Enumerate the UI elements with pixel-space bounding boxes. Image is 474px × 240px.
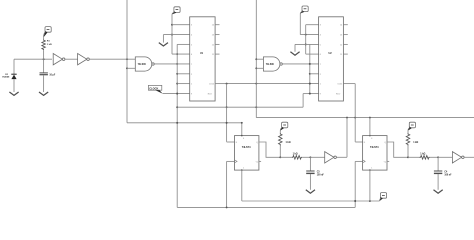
svg-text:4: 4	[243, 138, 244, 140]
resistor R1 1k	[42, 37, 52, 59]
inverter U6A	[325, 152, 337, 163]
svg-text:14: 14	[212, 25, 214, 27]
counter IC U2	[319, 17, 344, 101]
svg-text:74LS00: 74LS00	[266, 63, 275, 66]
wire NAND2 input A	[256, 58, 263, 60]
wire inv2 to NAND1	[89, 58, 135, 60]
wire U2 pin row 6	[310, 73, 319, 75]
power supply V1	[44, 27, 52, 38]
power supply for U1	[172, 7, 180, 15]
wire U2 right stubs	[343, 25, 347, 54]
resistor bottom-left 1k vertical	[279, 131, 291, 158]
wire bus right upper	[354, 84, 356, 142]
svg-text:1 kΩ: 1 kΩ	[286, 142, 291, 144]
svg-text:1 kΩ: 1 kΩ	[420, 154, 425, 156]
wire to inverter3	[310, 156, 324, 158]
resistor bottom-left 1k horizontal	[280, 154, 310, 159]
ground under capacitor	[39, 92, 48, 95]
wire main input	[14, 58, 52, 60]
wire inv4 output	[464, 156, 474, 158]
wire U1 pin row 2 to ground	[163, 35, 189, 43]
svg-text:11: 11	[340, 54, 342, 56]
wire U1 supply bus A	[171, 14, 173, 54]
wire U2 supply bus A	[300, 14, 318, 36]
svg-text:7: 7	[320, 64, 321, 66]
svg-text:14: 14	[340, 25, 342, 27]
counter IC U1	[190, 17, 215, 101]
svg-text:11: 11	[212, 54, 214, 56]
wire NAND2 out to U2	[282, 63, 318, 65]
wire bottom bus	[177, 206, 355, 208]
wire U2 pin row 3 to ground	[295, 44, 319, 51]
wire inv3 output riser	[336, 118, 347, 158]
diode D1 1N4148	[2, 59, 17, 92]
svg-text:9: 9	[191, 94, 192, 96]
ground near U1	[159, 43, 168, 46]
svg-text:13: 13	[340, 35, 342, 37]
node junction R-R left	[279, 156, 281, 158]
svg-text:15: 15	[212, 84, 214, 86]
wire bus mid	[226, 84, 228, 142]
svg-text:3: 3	[320, 25, 321, 27]
wire NAND1 input B	[127, 67, 135, 69]
wire U1 right stubs	[215, 25, 219, 54]
svg-text:1: 1	[320, 84, 321, 86]
node junction R-R right	[407, 156, 409, 158]
wire U1 pin row 1	[172, 24, 190, 26]
ground under D1	[9, 92, 18, 95]
svg-text:100 nF: 100 nF	[317, 175, 325, 177]
capacitor C3 100nF	[306, 157, 324, 190]
svg-text:1: 1	[243, 168, 244, 170]
wire U1 pin row 4	[172, 53, 190, 55]
wire row to U2 clock	[303, 93, 319, 108]
svg-text:74LS74: 74LS74	[370, 146, 379, 149]
wire FF1 Q hook	[259, 142, 280, 157]
svg-text:74LS74: 74LS74	[242, 146, 251, 149]
flip-flop U5B 74LS74	[363, 135, 387, 171]
wire FF2 top pin	[369, 118, 371, 136]
wire FF2 CLR down	[369, 170, 371, 201]
svg-text:1: 1	[371, 168, 372, 170]
wire U1 bus B	[176, 44, 178, 206]
svg-text:3: 3	[191, 25, 192, 27]
NAND gate U4A 74LS00	[135, 57, 154, 71]
svg-text:4: 4	[371, 138, 372, 140]
power supply for U2	[300, 6, 308, 14]
svg-text:10 µF: 10 µF	[49, 74, 55, 76]
wire U2 bus B	[305, 25, 319, 54]
inverter U6B	[452, 152, 464, 163]
node junction C4	[437, 156, 439, 158]
wire carry row to U2	[226, 83, 319, 85]
capacitor 10uF	[40, 59, 56, 92]
wire clk riser right	[354, 161, 362, 207]
wire clock branch row	[177, 106, 303, 108]
svg-text:7: 7	[191, 64, 192, 66]
power supply bottom	[380, 193, 387, 201]
svg-text:15: 15	[340, 84, 342, 86]
flip-flop U5A 74LS74	[235, 135, 259, 171]
wire NAND1 out to U1	[154, 63, 190, 65]
svg-text:74LS00: 74LS00	[138, 63, 147, 66]
svg-text:100 nF: 100 nF	[444, 175, 452, 177]
ground under C4	[434, 190, 443, 193]
wire row122 to FF1 top	[127, 122, 243, 136]
wire inv1-inv2	[65, 58, 78, 60]
wire to inverter4	[438, 156, 452, 158]
svg-text:4: 4	[320, 35, 321, 37]
svg-text:1 kΩ: 1 kΩ	[47, 44, 52, 46]
svg-text:1 kΩ: 1 kΩ	[293, 154, 298, 156]
power supply bottom-right	[408, 122, 416, 130]
wire long lower feedback	[256, 117, 474, 119]
capacitor C4 100nF	[434, 157, 452, 190]
wire NAND2 input B	[256, 67, 263, 69]
wire clk riser left	[227, 161, 235, 207]
node CLOCK label	[148, 85, 162, 93]
resistor bottom-right 1k vertical	[406, 131, 418, 158]
wire U1 carry out	[215, 83, 227, 85]
svg-text:12: 12	[212, 44, 214, 46]
wire FF1 Q stub	[259, 160, 261, 162]
svg-text:4: 4	[191, 35, 192, 37]
svg-text:6: 6	[191, 54, 192, 56]
svg-text:5: 5	[320, 44, 321, 46]
wire feedback left vertical	[126, 0, 128, 123]
resistor bottom-right 1k horizontal	[408, 154, 438, 159]
inverter U3B	[78, 54, 90, 65]
NAND gate U4B 74LS00	[263, 57, 282, 71]
inverter U3A	[53, 54, 65, 65]
wire right to FF2 D	[355, 140, 362, 143]
svg-text:1N4148: 1N4148	[2, 76, 10, 79]
svg-text:CLOCK: CLOCK	[149, 86, 158, 90]
wire CLOCK to U1	[163, 93, 190, 95]
svg-text:1: 1	[191, 84, 192, 86]
ground near U2	[290, 52, 299, 55]
wire FF1 CLR down	[242, 170, 380, 202]
svg-text:9: 9	[320, 94, 321, 96]
svg-text:2: 2	[191, 74, 192, 76]
wire U1 pin row 7	[177, 83, 190, 85]
wire U2 bus C	[309, 44, 311, 94]
node junction C3	[309, 156, 311, 158]
wire top feedback right vertical	[255, 0, 257, 118]
svg-text:12: 12	[340, 44, 342, 46]
svg-text:6: 6	[320, 54, 321, 56]
ground under C3	[306, 190, 315, 193]
wire U1 pin row 3	[177, 43, 190, 45]
svg-text:13: 13	[212, 35, 214, 37]
svg-text:2: 2	[320, 74, 321, 76]
wire U2 carry out	[343, 83, 355, 85]
svg-text:1 kΩ: 1 kΩ	[413, 142, 418, 144]
svg-text:RCO: RCO	[336, 94, 341, 96]
wire FF2 Q hook	[387, 142, 408, 157]
svg-text:5: 5	[191, 44, 192, 46]
power supply bottom-left	[280, 122, 288, 130]
wire mid to FF1 D	[227, 140, 235, 143]
wire U1 pin row 6	[177, 73, 190, 75]
svg-text:RCO: RCO	[208, 94, 213, 96]
wire FF2 Q stub	[387, 160, 389, 162]
